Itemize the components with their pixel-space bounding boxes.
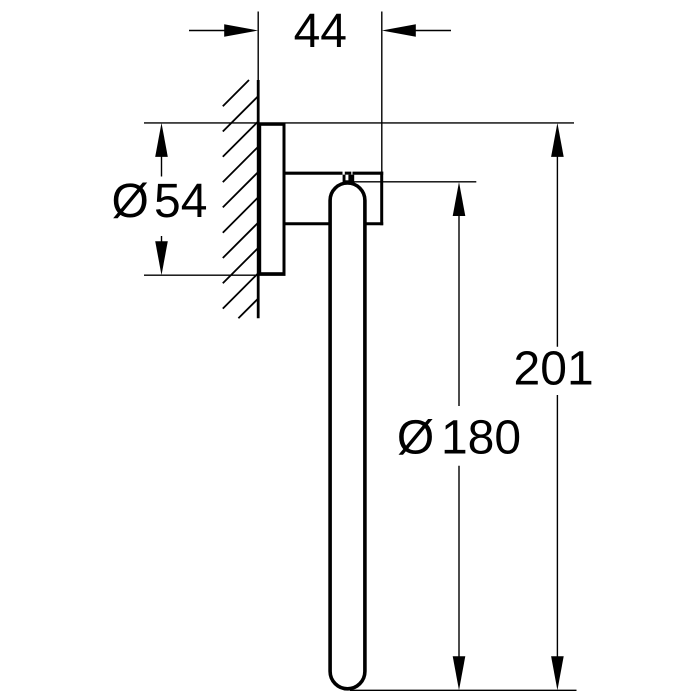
- dimension 201: dimension line with outward arrows: [551, 123, 564, 157]
- wall hatching: [223, 80, 258, 318]
- wire: top extension line y=123 (rosette top / 201 top): [144, 122, 574, 124]
- dimension D180: bottom extension line (shared with 201): [350, 689, 577, 691]
- pivot pin white slot: [346, 175, 349, 181]
- svg-text:44: 44: [294, 5, 347, 58]
- holder arm top edge: [284, 172, 383, 175]
- dimension 44: right extension line: [381, 12, 383, 172]
- wall surface line: [257, 80, 260, 318]
- wire: bottom extension line of D54: [144, 274, 286, 276]
- dimension 44: left object/extension line: [257, 12, 259, 81]
- dimension 44: right arrow: [414, 30, 451, 32]
- towel ring tube (D180, side view capsule): [330, 183, 365, 689]
- dimension 44: left arrow: [189, 30, 226, 32]
- svg-text:54: 54: [154, 175, 207, 228]
- pin slot white gaps in holder top edge: [343, 171, 345, 174]
- holder arm bottom edge left part: [284, 222, 331, 225]
- svg-text:180: 180: [441, 411, 521, 464]
- dimension D54: dimension line with outward arrows: [155, 123, 168, 157]
- dimension D180: dimension line with outward arrows: [453, 182, 466, 216]
- svg-text:201: 201: [514, 342, 594, 395]
- svg-text:Ø: Ø: [112, 175, 149, 228]
- pivot pin block: [343, 175, 355, 183]
- holder arm right edge: [380, 172, 383, 226]
- svg-text:Ø: Ø: [397, 411, 434, 464]
- dimension D180: top extension line: [354, 181, 476, 183]
- holder arm bottom edge right part: [365, 222, 384, 225]
- wall plate rosette (D54): [260, 124, 284, 273]
